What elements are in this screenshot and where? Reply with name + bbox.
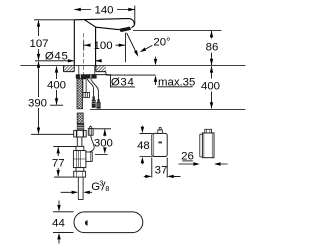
svg-text:Ø45: Ø45 — [45, 50, 69, 62]
svg-text:100: 100 — [94, 40, 113, 52]
svg-text:Ø34: Ø34 — [111, 76, 135, 88]
svg-text:44: 44 — [52, 217, 65, 229]
svg-text:26: 26 — [181, 151, 194, 163]
svg-text:390: 390 — [28, 97, 47, 109]
svg-text:86: 86 — [206, 41, 219, 53]
svg-text:max.35: max.35 — [158, 76, 195, 88]
svg-text:77: 77 — [52, 158, 65, 170]
svg-text:107: 107 — [29, 38, 48, 50]
svg-text:400: 400 — [201, 81, 220, 93]
svg-text:3: 3 — [99, 179, 103, 188]
svg-text:8: 8 — [105, 184, 109, 193]
svg-text:300: 300 — [94, 137, 113, 149]
svg-text:48: 48 — [137, 140, 150, 152]
svg-text:20°: 20° — [153, 36, 170, 48]
svg-text:37: 37 — [155, 165, 168, 177]
svg-text:400: 400 — [47, 79, 66, 91]
svg-text:140: 140 — [94, 4, 113, 16]
